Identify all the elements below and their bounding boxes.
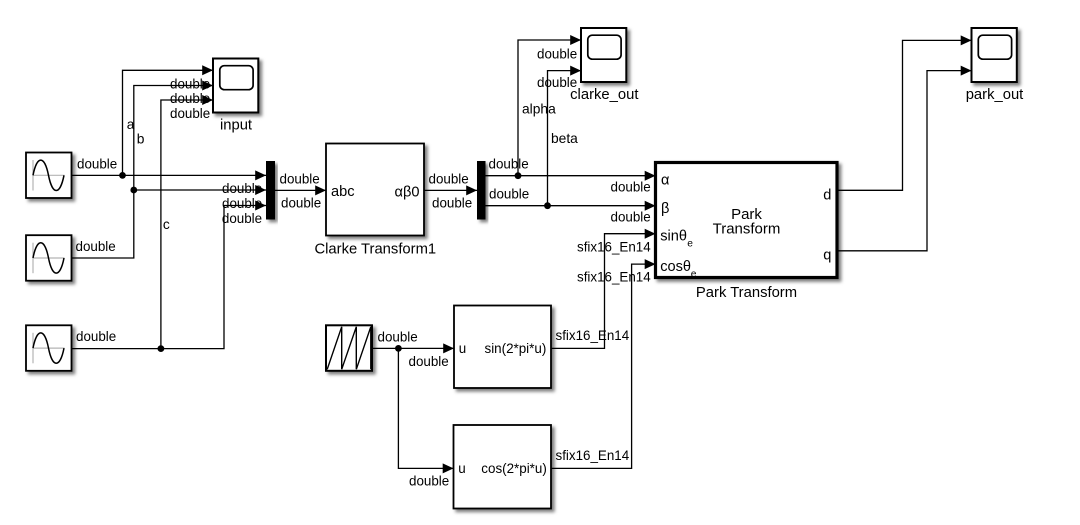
svg-text:e: e (687, 238, 693, 249)
type label double (Sine1 out) (77, 157, 117, 172)
type label double (Sine3 out) (76, 329, 116, 344)
scope block input (213, 59, 258, 113)
wire sin block to Park sin theta (551, 229, 656, 349)
block sin(2*pi*u) (454, 306, 551, 389)
svg-text:sfix16_En14: sfix16_En14 (556, 448, 630, 463)
label a (127, 117, 135, 132)
svg-text:Park Transform: Park Transform (696, 285, 797, 301)
sine wave source Sine2 (26, 235, 72, 281)
svg-text:double: double (409, 474, 449, 489)
type label double (Mux in3) (222, 211, 262, 226)
type label double (Park alpha in) (611, 179, 651, 194)
wire Sine3 to Mux in3 (net c) (72, 201, 267, 349)
type label double (Mux in1) (222, 181, 262, 196)
svg-text:β: β (661, 201, 669, 217)
svg-text:sfix16_En14: sfix16_En14 (577, 269, 651, 284)
svg-text:u: u (458, 461, 465, 476)
sawtooth source block (326, 325, 372, 371)
wire Sine2 to Mux in2 (net b) (72, 185, 267, 258)
wire Park q to park_out port2 (837, 66, 972, 251)
junction beta (544, 202, 551, 209)
label b (137, 132, 145, 147)
port label d (Park out1) (823, 188, 831, 204)
svg-text:d: d (823, 188, 831, 204)
svg-text:abc: abc (331, 184, 355, 200)
block Park Transform (subsystem) (656, 163, 838, 278)
port label alpha (Park in1) (661, 173, 670, 189)
svg-text:sinθ: sinθ (660, 228, 687, 244)
svg-text:cosθ: cosθ (660, 259, 691, 275)
wire branch alpha to clarke_out port1 (518, 35, 581, 176)
svg-text:double: double (222, 181, 262, 196)
svg-text:beta: beta (551, 131, 578, 146)
svg-text:double: double (489, 156, 529, 171)
mux (266, 161, 275, 220)
type label double (Park beta in) (611, 209, 651, 224)
junction alpha (515, 172, 522, 179)
svg-text:clarke_out: clarke_out (570, 87, 638, 103)
svg-text:sin(2*pi*u): sin(2*pi*u) (485, 341, 547, 356)
svg-text:park_out: park_out (966, 87, 1024, 103)
demux (477, 161, 486, 220)
svg-text:double: double (222, 211, 262, 226)
sine wave source Sine3 (26, 325, 72, 371)
junction net c (158, 345, 165, 352)
svg-text:Clarke Transform1: Clarke Transform1 (314, 241, 436, 257)
type label double (Demux out2) (489, 186, 529, 201)
svg-text:double: double (170, 76, 210, 91)
type label double (sawtooth out) (378, 330, 418, 345)
svg-text:double: double (537, 46, 577, 61)
type label double (clarke_out port2) (537, 75, 577, 90)
svg-text:b: b (137, 132, 145, 147)
block Clarke Transform1 (326, 144, 424, 236)
type label sfix16_En14 (sin out) (556, 328, 630, 343)
type label double (input scope port2) (170, 91, 210, 106)
label alpha (522, 101, 556, 116)
type label double (input scope port3) (170, 106, 210, 121)
svg-text:c: c (163, 217, 170, 232)
label Park Transform (696, 285, 797, 301)
wire sawtooth to sin block (372, 343, 454, 353)
wire Park d to park_out port1 (837, 35, 972, 190)
wire cos block to Park cos theta (551, 259, 656, 468)
junction sawtooth out (395, 345, 402, 352)
svg-text:e: e (691, 269, 697, 280)
wire branch sawtooth to cos block (398, 348, 453, 473)
svg-text:double: double (76, 329, 116, 344)
svg-text:αβ0: αβ0 (395, 184, 420, 200)
label input (220, 117, 252, 133)
svg-text:sfix16_En14: sfix16_En14 (556, 328, 630, 343)
wire branch net b to input scope port2 (134, 81, 213, 191)
svg-text:Transform: Transform (713, 221, 781, 238)
type label double (clarke_out port1) (537, 46, 577, 61)
junction net b (130, 187, 137, 194)
type label double (Demux out1) (489, 156, 529, 171)
svg-text:double: double (76, 239, 116, 254)
wire branch net c to input scope port3 (161, 95, 213, 349)
label clarke_out (570, 87, 638, 103)
svg-text:double: double (77, 157, 117, 172)
scope block clarke_out (581, 28, 626, 82)
svg-text:double: double (170, 91, 210, 106)
port label q (Park out2) (823, 248, 831, 264)
label Clarke Transform1 (314, 241, 436, 257)
type label double (cos u in) (409, 474, 449, 489)
block cos(2*pi*u) (454, 425, 552, 509)
type label double (Clarke in) (281, 196, 321, 211)
svg-text:alpha: alpha (522, 101, 556, 116)
svg-text:double: double (281, 196, 321, 211)
wire branch net a to input scope port1 (123, 65, 214, 175)
type label sfix16_En14 (Park sin theta in) (577, 239, 651, 254)
type label sfix16_En14 (cos out) (556, 448, 630, 463)
wire Mux out to Clarke Transform1 in (275, 185, 326, 195)
svg-text:double: double (537, 75, 577, 90)
svg-text:double: double (429, 172, 469, 187)
scope block park_out (972, 28, 1017, 82)
type label double (Clarke out) (429, 172, 469, 187)
type label double (input scope port1) (170, 76, 210, 91)
port label sin theta e (Park in3) (660, 228, 693, 249)
svg-text:u: u (459, 341, 466, 356)
svg-text:double: double (489, 186, 529, 201)
svg-text:double: double (378, 330, 418, 345)
port label beta (Park in2) (661, 201, 669, 217)
svg-text:q: q (823, 248, 831, 264)
type label double (Mux in2) (222, 196, 262, 211)
wire Demux out1 to Park alpha (486, 171, 656, 181)
label beta (551, 131, 578, 146)
svg-text:double: double (611, 179, 651, 194)
svg-text:double: double (170, 106, 210, 121)
svg-text:double: double (409, 354, 449, 369)
junction net a (119, 172, 126, 179)
svg-text:input: input (220, 117, 252, 133)
label c (163, 217, 170, 232)
svg-text:sfix16_En14: sfix16_En14 (577, 239, 651, 254)
wire Sine1 to Mux in1 (net a) (72, 170, 267, 180)
type label sfix16_En14 (Park cos theta in) (577, 269, 651, 284)
svg-text:double: double (611, 209, 651, 224)
wire branch beta to clarke_out port2 (548, 66, 582, 206)
svg-text:double: double (280, 172, 320, 187)
sine wave source Sine1 (26, 153, 72, 199)
wire Clarke Transform1 out to Demux in (424, 185, 477, 195)
svg-text:double: double (222, 196, 262, 211)
type label double (sin u in) (409, 354, 449, 369)
svg-text:cos(2*pi*u): cos(2*pi*u) (481, 461, 547, 476)
label park_out (966, 87, 1024, 103)
svg-text:double: double (432, 196, 472, 211)
svg-text:α: α (661, 173, 670, 189)
type label double (Mux out) (280, 172, 320, 187)
port label cos theta e (Park in4) (660, 259, 697, 280)
type label double (Sine2 out) (76, 239, 116, 254)
type label double (Demux in) (432, 196, 472, 211)
wire Demux out2 to Park beta (486, 201, 656, 211)
